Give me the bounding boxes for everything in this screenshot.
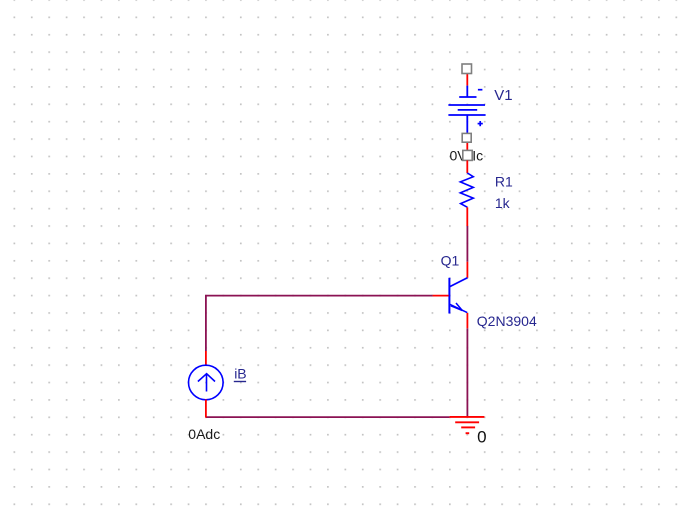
- V1 plate 2 (long): [448, 104, 485, 106]
- iB pin (top, red): [205, 351, 207, 365]
- Q1 base bar: [448, 278, 450, 314]
- V1 body lead bottom: [466, 115, 468, 133]
- wire: bottom net: [206, 416, 450, 418]
- wire: emitter net: [466, 328, 468, 417]
- svg-text:0: 0: [477, 428, 486, 447]
- svg-text:0Adc: 0Adc: [188, 426, 220, 442]
- unconnected pin square (V1 top): [462, 64, 472, 74]
- V1 minus sign: [478, 89, 483, 91]
- Q1 collector lead: [450, 278, 468, 287]
- wire: base net horizontal + left vertical: [206, 296, 433, 351]
- Q1 emitter arrowhead barb 2: [451, 306, 463, 311]
- ground bar 1: [450, 416, 485, 418]
- svg-text:V1: V1: [494, 87, 512, 104]
- current source iB: [189, 351, 224, 418]
- R1 pin (bottom, red): [466, 207, 468, 226]
- V1 body lead top: [466, 86, 468, 97]
- svg-text:Q2N3904: Q2N3904: [477, 313, 537, 329]
- iB circle body: [189, 365, 224, 400]
- ground bar 3: [461, 426, 475, 428]
- svg-text:Q1: Q1: [441, 253, 460, 269]
- V1 plate 4 (long): [448, 114, 485, 116]
- iB arrow barbs: [198, 374, 215, 382]
- Q1 emitter lead: [450, 304, 467, 312]
- V1 plate 3 (medium): [458, 109, 478, 111]
- svg-text:R1: R1: [495, 174, 513, 190]
- svg-text:1k: 1k: [495, 195, 511, 211]
- ground bar 4: [466, 432, 470, 434]
- V1 plus sign: [478, 121, 483, 126]
- iB pin (bottom, red): [205, 400, 207, 418]
- V1 pin (bottom, red): [466, 142, 468, 158]
- Q1 base pin (red): [433, 295, 449, 297]
- R1 zigzag body: [460, 173, 473, 207]
- Q1 emitter pin (red): [466, 313, 468, 328]
- iB underline: [234, 381, 246, 383]
- unconnected pin square (V1 bottom): [462, 133, 471, 142]
- unconnected pin square (mid): [463, 150, 472, 160]
- Q1 emitter arrowhead barb 1: [456, 303, 462, 311]
- V1 pin (top, red): [466, 74, 468, 86]
- ground bar 2: [455, 421, 479, 423]
- svg-text:iB: iB: [234, 366, 246, 382]
- wire: collector net: [466, 226, 468, 262]
- V1 plate 1 (short): [459, 96, 476, 98]
- resistor R1: [460, 160, 473, 226]
- voltage source V1: [448, 74, 485, 159]
- transistor Q1: [433, 262, 468, 329]
- svg-text:Ic: Ic: [472, 147, 483, 163]
- iB arrow shaft: [206, 374, 208, 392]
- Q1 collector pin (red): [466, 262, 468, 278]
- R1 pin (top, red): [466, 160, 468, 173]
- ground 0: [450, 417, 485, 433]
